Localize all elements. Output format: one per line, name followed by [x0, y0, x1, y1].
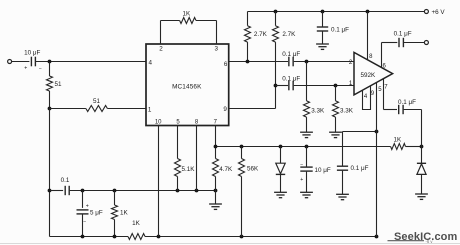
wire pin7 gnd stem [215, 191, 217, 205]
svg-text:592K: 592K [361, 72, 377, 79]
ground C5 [300, 192, 313, 197]
wire bottom rail left [50, 236, 129, 238]
wire bias bus [216, 146, 391, 148]
label 0.1uF C8 [282, 75, 300, 82]
node fb pin8 [195, 189, 199, 193]
node left rail mid [48, 189, 52, 193]
pin 4 U2 [363, 86, 371, 110]
svg-text:3.3K: 3.3K [311, 107, 325, 114]
label C1 plus [24, 66, 27, 72]
svg-text:0.1 μF: 0.1 μF [282, 51, 300, 58]
terminal input [8, 60, 12, 64]
wire C6 link [343, 132, 377, 167]
svg-text:51: 51 [93, 98, 101, 105]
ground C6 [336, 194, 349, 199]
node rail C3 [81, 235, 85, 239]
resistor R6 1K [128, 234, 145, 240]
label 10uF C5 [315, 167, 331, 174]
pin 5 U1 [176, 120, 180, 159]
wire +6V rail [248, 11, 425, 13]
node fb C3 [81, 189, 85, 193]
svg-text:2.7K: 2.7K [254, 31, 268, 38]
resistor R9 4.7K [213, 147, 219, 191]
node 3.3K top2 [334, 84, 338, 88]
terminal +6V [424, 10, 428, 14]
label 1K R11 [394, 136, 403, 143]
label 10uF C1 [24, 49, 40, 56]
node rail 56K [240, 235, 244, 239]
ground D1 [274, 192, 287, 197]
node bus D2 [420, 145, 424, 149]
svg-text:0.1 μF: 0.1 μF [351, 165, 369, 172]
label 0.1uF C9 [394, 30, 412, 37]
node rail pin10 [157, 235, 161, 239]
node fb pin7col [214, 189, 218, 193]
svg-text:0.1 μF: 0.1 μF [331, 26, 349, 33]
wire pins9-5 down [376, 82, 378, 236]
label 1K R7 [182, 11, 191, 18]
pin 8 U1 [195, 120, 199, 191]
node R2 bottom [246, 60, 250, 64]
svg-text:+: + [300, 177, 303, 183]
wire C8 to U2 [294, 85, 354, 87]
resistor R7 1K feedback [180, 18, 196, 24]
wire fb top [161, 20, 217, 22]
capacitor C10 0.1uF [399, 105, 403, 114]
svg-text:4.7K: 4.7K [219, 166, 233, 173]
watermark [388, 231, 458, 244]
label 3.3K R12 [311, 107, 325, 114]
svg-text:MC1456K: MC1456K [172, 84, 202, 91]
wire pin6 out [382, 42, 398, 44]
label 0.1uF C10 [398, 99, 416, 106]
wire bottom rail right [145, 236, 377, 238]
node fb 5.1K [176, 189, 180, 193]
label C5 plus [300, 177, 303, 183]
resistor R11 1K [391, 144, 422, 150]
label 1K R5 [120, 209, 129, 216]
svg-text:56K: 56K [247, 165, 259, 172]
wire fb left [50, 190, 64, 192]
resistor R10 56K [239, 147, 245, 237]
ground R13 [329, 132, 342, 137]
svg-text:1K: 1K [182, 11, 191, 18]
pin 9 U1 label [223, 106, 227, 113]
capacitor C5 10uF [300, 147, 312, 193]
node bus 56K [240, 145, 244, 149]
svg-text:5 μF: 5 μF [90, 209, 103, 216]
node 3.3K top1 [305, 60, 309, 64]
capacitor C8 0.1uF [289, 81, 293, 91]
terminal output [424, 41, 428, 45]
pin 8 U2 [368, 12, 374, 61]
svg-text:+: + [24, 66, 27, 72]
resistor R4 51 [50, 106, 147, 112]
pin 1 U2 label [349, 80, 353, 87]
label 5.1K R8 [182, 166, 196, 173]
diode D2 [417, 147, 426, 195]
resistor R13 3.3K [333, 86, 339, 133]
label C3 minus [83, 220, 86, 226]
node rail-R3 [274, 10, 278, 14]
svg-text:0.1 μF: 0.1 μF [398, 99, 416, 106]
svg-text:0.1 μF: 0.1 μF [394, 30, 412, 37]
capacitor C9 0.1uF [399, 38, 403, 47]
ground R9 [209, 204, 222, 209]
label 4.7K R9 [219, 166, 233, 173]
ground R12 [300, 132, 313, 137]
label 0.1uF C4 [331, 26, 349, 33]
label 51 R4 [93, 98, 101, 105]
wire C9 to out [404, 42, 425, 44]
wire C10 to D2 [404, 110, 422, 147]
svg-text:2: 2 [159, 46, 163, 53]
capacitor C7 0.1uF [289, 57, 293, 67]
svg-text:10 μF: 10 μF [24, 49, 40, 56]
label C1 minus [39, 66, 42, 72]
capacitor C3 5uF [77, 191, 89, 237]
node bus pin7 [214, 145, 218, 149]
svg-text:5.1K: 5.1K [182, 166, 196, 173]
wire to C8 [276, 85, 289, 87]
capacitor C6 0.1uF [337, 166, 348, 194]
op-amp U2 592K [354, 52, 393, 95]
label +6 V [432, 9, 446, 16]
wire pin7 out [384, 109, 398, 111]
wire pin9-U1 out [229, 86, 276, 109]
wire fb right [70, 190, 216, 192]
wire pin6-U1 out [229, 61, 288, 63]
node input junction [48, 60, 52, 64]
ground D2 [415, 194, 428, 199]
pin 2 U1 [159, 21, 163, 53]
wire C1 to pin4 [36, 61, 146, 63]
svg-text:+6 V: +6 V [432, 9, 446, 16]
label 3.3K R13 [340, 107, 354, 114]
resistor R2 2.7K [245, 12, 251, 62]
pin 1 U1 label [148, 107, 152, 114]
svg-text:−: − [300, 162, 303, 168]
svg-text:0.1: 0.1 [61, 177, 70, 184]
svg-text:10 μF: 10 μF [315, 167, 331, 174]
label 592K [361, 72, 377, 79]
pin 4 U1 label [149, 59, 153, 66]
label 0.1uF C7 [282, 51, 300, 58]
node rail end [375, 235, 379, 239]
label C5 minus [300, 162, 303, 168]
diode D1 [276, 147, 285, 193]
svg-text:3: 3 [215, 46, 219, 53]
svg-text:2: 2 [349, 59, 353, 66]
svg-text:4: 4 [149, 59, 153, 66]
label 0.1 C2 [61, 177, 70, 184]
pin 6 U2 [382, 43, 387, 70]
svg-text:51: 51 [55, 81, 63, 88]
wire C7 to U2 [294, 61, 354, 63]
node rail-C4 [321, 10, 325, 14]
pin 5 U2 label [378, 87, 382, 93]
node 51 junction [48, 107, 52, 111]
svg-text:1: 1 [349, 80, 353, 87]
resistor R12 3.3K [304, 62, 310, 133]
node rail-pin8 [366, 10, 370, 14]
svg-text:1K: 1K [394, 136, 403, 143]
svg-text:−: − [83, 220, 86, 226]
node R3 bottom [274, 84, 278, 88]
capacitor C2 0.1 [65, 186, 69, 195]
label 0.1uF C6 [351, 165, 369, 172]
svg-text:−: − [39, 66, 42, 72]
resistor R5 1K [112, 191, 118, 237]
svg-text:1: 1 [148, 107, 152, 114]
capacitor C1 10uF [31, 57, 35, 67]
wire input [12, 61, 30, 63]
pin 2 U2 label [349, 59, 353, 66]
node C6 pin95 [375, 130, 379, 134]
resistor R8 5.1K [175, 159, 181, 191]
svg-text:2.7K: 2.7K [282, 31, 296, 38]
wire left rail [49, 109, 51, 237]
pin 7 U1 [214, 120, 218, 147]
border bottom [0, 243, 460, 245]
label C3 plus [86, 203, 89, 209]
svg-text:1K: 1K [120, 209, 129, 216]
node bus D1 [279, 145, 283, 149]
label 56K R10 [247, 165, 259, 172]
label 5uF C3 [90, 209, 103, 216]
svg-text:0.1 μF: 0.1 μF [282, 75, 300, 82]
resistor R3 2.7K [273, 12, 279, 86]
label 1K R6 [132, 220, 141, 227]
op-amp U1 MC1456K [146, 44, 229, 126]
svg-text:9: 9 [223, 106, 227, 113]
label 51 R1 [55, 81, 63, 88]
label MC1456K [172, 84, 202, 91]
node bus C5 [305, 145, 309, 149]
capacitor C4 0.1uF [317, 12, 328, 45]
label 2.7K R3 [282, 31, 296, 38]
pin 6 U1 label [224, 61, 228, 68]
svg-text:1K: 1K [132, 220, 141, 227]
svg-text:6: 6 [224, 61, 228, 68]
node fb R5 [113, 189, 117, 193]
pin 10 U1 [155, 120, 162, 237]
svg-text:+: + [86, 203, 89, 209]
pin 7 U2 [384, 78, 389, 109]
resistor R1 51 [47, 62, 53, 109]
pin 3 U1 [215, 21, 219, 53]
node rail R5 [113, 235, 117, 239]
svg-text:3.3K: 3.3K [340, 107, 354, 114]
pin 9 U2 label [371, 91, 375, 97]
svg-text:10: 10 [155, 120, 162, 126]
ground C4 [316, 44, 329, 49]
label 2.7K R2 [254, 31, 268, 38]
